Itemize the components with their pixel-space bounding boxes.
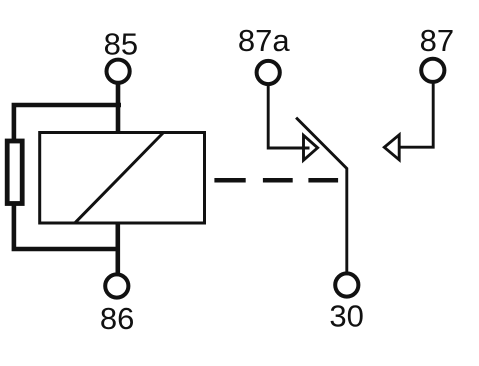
svg-text:87a: 87a [238, 23, 290, 58]
svg-text:86: 86 [100, 301, 134, 336]
svg-text:85: 85 [104, 27, 138, 62]
svg-text:87: 87 [420, 23, 454, 58]
svg-text:30: 30 [329, 298, 363, 333]
